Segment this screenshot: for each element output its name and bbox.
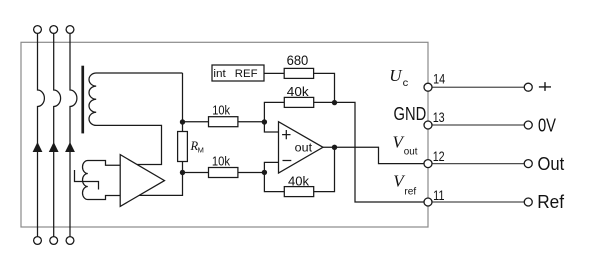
primary conductor 1 wire [38, 33, 45, 236]
wire int REF to 680 [264, 72, 284, 74]
hall element current lead [75, 170, 99, 190]
primary conductor 2 top terminal [50, 26, 58, 34]
wire pin 12 to Out terminal [432, 163, 524, 165]
node dot minus input [262, 170, 267, 175]
node dot output [332, 145, 337, 150]
top rail wire [183, 121, 209, 123]
pin 11 circle [424, 198, 432, 206]
svg-text:M: M [198, 146, 204, 155]
wire op-amp output to pin 12 [323, 147, 424, 163]
pin 12 circle [424, 160, 432, 168]
wire 680 to Vref node [314, 73, 335, 102]
pin 13 circle [424, 121, 432, 129]
primary conductor 1 arrow [33, 142, 43, 152]
resistor 10k bottom [209, 168, 238, 178]
wire A1 lower output to RM bottom node [139, 173, 182, 196]
wire 10k top to plus node [238, 121, 265, 123]
svg-text:0V: 0V [538, 115, 556, 135]
device outline box [21, 42, 428, 227]
svg-text:10k: 10k [212, 154, 230, 169]
node dot RM top [180, 119, 185, 124]
wire 40k bottom right lead to output [314, 147, 335, 191]
svg-text:14: 14 [433, 72, 445, 87]
svg-text:40k: 40k [288, 174, 309, 189]
wire minus input lead [264, 162, 284, 191]
svg-text:out: out [404, 146, 418, 157]
resistor RM [178, 132, 188, 162]
node dot RM bottom [180, 170, 185, 175]
wire 40k top left lead to plus input [264, 102, 284, 132]
primary conductor 3 arrow [65, 142, 75, 152]
plus terminal label [539, 82, 551, 91]
wire 40k top right lead [314, 101, 335, 103]
primary conductor 2 arrow [49, 142, 59, 152]
bottom rail wire [183, 172, 209, 174]
op-amp U1 [279, 122, 324, 173]
resistor 680 [284, 68, 313, 78]
wire pin 11 to Ref terminal [432, 201, 524, 203]
primary conductor 2 wire [54, 33, 61, 236]
wire pin 14 to plus terminal [432, 86, 524, 88]
int REF box [212, 65, 264, 81]
magnetic core [81, 66, 84, 134]
primary conductor 2 bottom terminal [50, 237, 58, 245]
resistor 40k top [284, 97, 313, 107]
Out terminal circle [524, 160, 532, 168]
plus terminal circle [524, 83, 532, 91]
primary conductor 1 bottom terminal [34, 237, 42, 245]
wire Vref node to pin 11 [335, 102, 425, 202]
svg-text:out: out [295, 140, 313, 154]
Ref terminal circle [524, 198, 532, 206]
svg-text:GND: GND [394, 104, 427, 124]
wire 10k bottom to minus node [238, 172, 265, 174]
node dot plus input [262, 119, 267, 124]
primary conductor 3 wire [70, 33, 77, 236]
svg-text:REF: REF [235, 68, 258, 80]
0V terminal circle [524, 121, 532, 129]
op-amp plus sign [282, 130, 290, 139]
svg-text:11: 11 [433, 188, 445, 203]
op-amp minus sign [283, 160, 292, 162]
svg-text:12: 12 [433, 149, 445, 164]
svg-text:ref: ref [404, 186, 416, 197]
resistor 10k top [209, 117, 238, 127]
node dot Vref [332, 100, 337, 105]
resistor 40k bottom [284, 187, 313, 197]
wire pin 13 to 0V terminal [432, 124, 524, 126]
hall element [83, 161, 121, 200]
svg-text:680: 680 [287, 53, 309, 68]
svg-text:c: c [403, 77, 409, 89]
svg-text:10k: 10k [212, 103, 230, 118]
primary conductor 1 top terminal [34, 26, 42, 34]
primary conductor 3 top terminal [66, 26, 74, 34]
svg-text:Ref: Ref [537, 192, 565, 212]
pin 14 circle [424, 83, 432, 91]
wire secondary top to RM top node [182, 73, 184, 122]
amplifier A1 [120, 155, 164, 207]
svg-text:int: int [213, 68, 225, 80]
svg-text:13: 13 [433, 110, 445, 125]
svg-text:U: U [389, 66, 403, 85]
secondary winding [89, 73, 183, 165]
svg-text:40k: 40k [287, 84, 309, 99]
resistor RM leads [182, 122, 184, 173]
primary conductor 3 bottom terminal [66, 237, 74, 245]
svg-text:Out: Out [538, 154, 565, 174]
